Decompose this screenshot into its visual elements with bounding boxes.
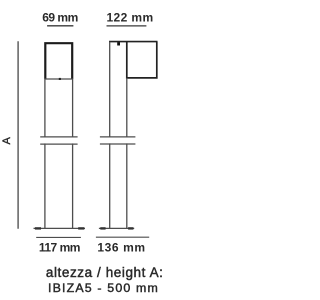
svg-text:122 mm: 122 mm xyxy=(106,11,153,25)
svg-text:altezza / height A:: altezza / height A: xyxy=(46,265,164,280)
svg-text:69 mm: 69 mm xyxy=(42,11,78,25)
svg-text:A: A xyxy=(1,136,13,144)
svg-text:136 mm: 136 mm xyxy=(97,240,145,254)
svg-text:IBIZA5 - 500 mm: IBIZA5 - 500 mm xyxy=(48,281,159,295)
svg-text:117 mm: 117 mm xyxy=(39,240,80,254)
